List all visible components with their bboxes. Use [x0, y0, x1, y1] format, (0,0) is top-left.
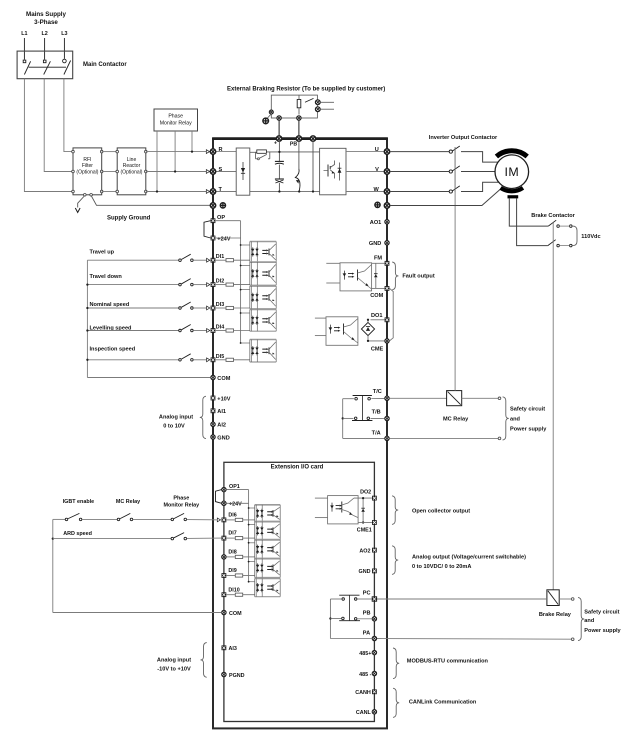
- terminal AO2: [372, 548, 377, 553]
- terminal DO2: [372, 496, 377, 501]
- terminal 485-: [372, 671, 376, 675]
- terminal +: [276, 136, 281, 141]
- terminal CANH: [372, 689, 377, 694]
- wires RFI to line reactor: [102, 151, 118, 153]
- DO2 optocoupler: [315, 497, 328, 499]
- main contactor linkage bar: [29, 66, 66, 68]
- wire PC to brake relay: [377, 598, 547, 600]
- wires line reactor to drive R S T: [146, 151, 206, 153]
- input resistor DI9: [235, 574, 242, 577]
- braking resistor R: [297, 100, 301, 108]
- main contactor pole L3: [63, 59, 67, 63]
- terminal AO1: [385, 220, 389, 224]
- svg-text:+24V: +24V: [217, 236, 230, 242]
- svg-text:PA: PA: [363, 631, 370, 637]
- terminal T/B: [385, 416, 389, 420]
- svg-text:AO2: AO2: [359, 548, 370, 554]
- brace open collector: [392, 496, 398, 525]
- wire rectifier output to chopper rail: [250, 151, 257, 153]
- terminal DI7: [222, 536, 227, 541]
- brace safety circuit MC: [503, 397, 509, 440]
- wire L3 drop: [63, 38, 65, 59]
- svg-text:OP: OP: [217, 215, 225, 221]
- svg-text:PGND: PGND: [229, 673, 245, 679]
- brake contactor linkage: [552, 223, 554, 590]
- terminal AI1: [211, 408, 216, 413]
- supply ground wire: [78, 196, 85, 208]
- svg-text:Inspection speed: Inspection speed: [90, 347, 136, 353]
- svg-text:Brake Contactor: Brake Contactor: [531, 213, 575, 219]
- svg-text:OP1: OP1: [229, 484, 240, 490]
- svg-text:DI7: DI7: [228, 531, 236, 537]
- terminal DI4: [207, 329, 210, 333]
- thermal switch on braking resistor: [305, 98, 314, 102]
- terminal T/A: [385, 436, 389, 440]
- svg-text:Analog output (Voltage/current: Analog output (Voltage/current switchabl…: [412, 555, 526, 561]
- wire T/C to MC relay coil: [390, 397, 447, 399]
- wire contactor to motor V: [461, 171, 495, 173]
- wire contactor to motor U: [461, 152, 498, 163]
- svg-text:CANLink Communication: CANLink Communication: [409, 700, 477, 706]
- wire L1 drop: [23, 38, 25, 60]
- IGBT symbol: [327, 165, 329, 177]
- svg-text:Travel up: Travel up: [90, 250, 115, 256]
- terminal CANL: [372, 710, 376, 714]
- svg-text:110Vdc: 110Vdc: [581, 234, 600, 240]
- terminal DI10: [222, 592, 227, 597]
- wire phase monitor drop 1 to T: [156, 131, 158, 192]
- svg-text:External Braking Resistor (To: External Braking Resistor (To be supplie…: [227, 87, 385, 93]
- terminal DI9: [222, 573, 227, 578]
- braking resistor assembly box: [271, 95, 317, 118]
- terminal T: [206, 190, 209, 194]
- terminal +24V left: [211, 236, 216, 241]
- wire V to contactor: [390, 171, 449, 173]
- svg-text:Analog input: Analog input: [159, 415, 193, 421]
- input resistor DI2: [226, 283, 234, 286]
- svg-text:T/A: T/A: [372, 431, 381, 437]
- phase monitor relay box: [154, 109, 198, 131]
- terminal S: [206, 170, 209, 174]
- svg-text:Power supply: Power supply: [510, 426, 547, 432]
- main contactor pole L2: [43, 60, 46, 63]
- svg-text:3-Phase: 3-Phase: [34, 19, 58, 26]
- svg-text:V: V: [375, 167, 379, 173]
- wire L2 to RFI (middle row): [44, 79, 73, 172]
- terminal PGND: [222, 672, 226, 676]
- brace safety circuit brake: [578, 597, 584, 640]
- svg-text:+: +: [274, 141, 277, 147]
- svg-text:Extension I/O card: Extension I/O card: [271, 464, 324, 470]
- svg-text:Open collector output: Open collector output: [412, 508, 470, 514]
- jumper OP1 to +24V ext: [216, 490, 222, 504]
- terminal R: [206, 150, 209, 154]
- wire V row in box: [346, 171, 385, 173]
- terminal PB ext: [372, 617, 376, 621]
- brake shoe bottom: [501, 188, 523, 191]
- IGBT freewheel diode: [339, 163, 341, 181]
- svg-text:T/C: T/C: [373, 389, 382, 395]
- svg-text:Monitor Relay: Monitor Relay: [163, 503, 199, 509]
- terminal COM left: [211, 375, 215, 379]
- minus rail drop: [312, 141, 314, 191]
- svg-text:Phase: Phase: [168, 114, 183, 120]
- wire + column: [278, 120, 280, 136]
- svg-text:Reactor: Reactor: [123, 163, 141, 169]
- terminal GND ext: [372, 569, 377, 574]
- wire relay common: [343, 398, 354, 400]
- brake contactor pole 1: [548, 220, 556, 226]
- DO1 protection diode bridge: [361, 322, 374, 335]
- left common bus for DI switches: [86, 260, 88, 377]
- terminal PB top: [297, 116, 301, 120]
- brace analog output: [392, 546, 398, 575]
- terminal DI3: [207, 306, 210, 310]
- svg-text:COM: COM: [229, 611, 242, 617]
- svg-text:485+: 485+: [359, 651, 371, 657]
- input resistor DI10: [235, 593, 242, 596]
- terminal T/C: [385, 396, 389, 400]
- svg-text:GND: GND: [359, 569, 371, 575]
- svg-text:+10V: +10V: [217, 396, 230, 402]
- DC link capacitor column: [278, 139, 280, 161]
- contactor linkage line: [454, 147, 456, 192]
- input resistor DI7: [235, 537, 242, 540]
- wire COM ext return: [53, 612, 222, 614]
- wire S row to rectifier: [216, 171, 237, 173]
- line reactor box: [117, 148, 146, 195]
- svg-text:Monitor Relay: Monitor Relay: [160, 121, 192, 127]
- svg-text:Safety circuit: Safety circuit: [584, 610, 619, 616]
- rectifier diode: [242, 162, 244, 180]
- ext opto feed line: [226, 489, 248, 491]
- main drive unit box: [213, 139, 387, 729]
- wire R row to rectifier: [216, 151, 237, 153]
- terminal minus: [310, 136, 315, 141]
- optocoupler DI2: [250, 261, 276, 263]
- optocoupler DI5: [250, 339, 276, 341]
- svg-text:(Optional): (Optional): [121, 170, 143, 176]
- terminal DI1: [207, 258, 210, 262]
- wire U to contactor: [390, 151, 449, 153]
- svg-text:GND: GND: [369, 241, 381, 247]
- terminal CME: [385, 339, 389, 343]
- PE symbol right: [375, 202, 380, 207]
- terminal PE left: [210, 203, 215, 208]
- wire W row in box: [346, 191, 385, 193]
- optocoupler DI4: [250, 309, 276, 311]
- terminal FM: [385, 261, 390, 266]
- svg-text:Main Contactor: Main Contactor: [83, 62, 127, 68]
- terminal +10V: [211, 396, 216, 401]
- wire PB column: [298, 120, 300, 136]
- svg-text:CANL: CANL: [356, 710, 372, 716]
- terminal OP1: [222, 487, 226, 491]
- svg-text:Inverter Output Contactor: Inverter Output Contactor: [429, 135, 498, 141]
- terminal DI8: [222, 555, 226, 559]
- svg-text:Travel down: Travel down: [90, 274, 123, 280]
- terminal DI2: [207, 283, 210, 287]
- optocoupler DI8: [255, 539, 281, 541]
- terminal DI6: [222, 518, 227, 523]
- svg-text:W: W: [374, 187, 380, 193]
- svg-text:PB: PB: [290, 141, 297, 147]
- terminal AI2: [211, 422, 215, 426]
- terminal W: [384, 189, 389, 194]
- svg-text:0 to 10V: 0 to 10V: [163, 424, 185, 430]
- svg-text:485 -: 485 -: [359, 672, 371, 678]
- wire to DI7: [187, 537, 222, 539]
- wire brake relay to safety: [559, 598, 571, 600]
- terminal GND right: [385, 241, 389, 245]
- wire L2 drop: [44, 38, 46, 60]
- svg-text:CME1: CME1: [357, 528, 372, 534]
- terminal COM fault: [385, 286, 390, 291]
- brace canlink: [393, 688, 399, 717]
- terminal OP: [211, 218, 216, 223]
- relay contact PC-PB: [339, 594, 359, 596]
- optocoupler DI6: [255, 504, 281, 506]
- svg-text:PC: PC: [363, 591, 371, 597]
- terminal + on DC bus: [277, 116, 281, 120]
- svg-text:DI9: DI9: [228, 568, 236, 574]
- inrush resistor: [257, 150, 267, 153]
- svg-text:Analog input: Analog input: [157, 658, 191, 664]
- inrush bypass contact: [255, 152, 257, 159]
- inverter IGBT box: [320, 148, 346, 195]
- optocoupler DI7: [255, 520, 281, 522]
- svg-text:FM: FM: [374, 256, 382, 262]
- svg-text:AI1: AI1: [217, 409, 226, 415]
- terminal +24V ext: [222, 501, 226, 505]
- PE symbol left: [220, 203, 225, 208]
- main contactor KM box: [17, 51, 73, 79]
- terminal AI3: [222, 645, 227, 650]
- brace analog input 0-10V: [200, 396, 206, 438]
- svg-text:0 to 10VDC/ 0 to 20mA: 0 to 10VDC/ 0 to 20mA: [412, 564, 471, 570]
- svg-text:R: R: [219, 147, 223, 153]
- input resistor DI8: [235, 555, 242, 558]
- svg-text:L3: L3: [61, 31, 67, 37]
- wire DO1 to diode bridge: [367, 320, 369, 323]
- svg-text:DI10: DI10: [228, 587, 239, 593]
- input resistor DI5: [226, 358, 234, 361]
- svg-text:-10V to +10V: -10V to +10V: [157, 667, 191, 673]
- wire PE to motor frame: [390, 188, 502, 206]
- fault output optocoupler: [326, 262, 340, 264]
- svg-text:DO2: DO2: [360, 489, 371, 495]
- terminal DO1: [385, 317, 390, 322]
- svg-text:Power supply: Power supply: [584, 628, 621, 634]
- brake chopper switch: [298, 141, 300, 169]
- DO1 optocoupler: [315, 317, 326, 319]
- svg-text:Safety circuit: Safety circuit: [510, 406, 545, 412]
- svg-text:AI2: AI2: [217, 423, 226, 429]
- svg-text:L2: L2: [41, 31, 47, 37]
- relay contact T/C-T/B: [353, 395, 372, 397]
- fault flyback diode: [375, 263, 377, 288]
- jumper COM to CME external: [390, 288, 394, 341]
- svg-text:IM: IM: [505, 165, 520, 179]
- wire bridge to CME: [367, 336, 369, 341]
- svg-text:(Optional): (Optional): [76, 170, 98, 176]
- MC relay coil: [447, 391, 462, 406]
- svg-text:MC Relay: MC Relay: [443, 417, 469, 423]
- svg-text:AO1: AO1: [370, 220, 382, 226]
- wire T row through power stage: [216, 191, 320, 193]
- terminal V: [384, 169, 389, 174]
- svg-text:+24V: +24V: [229, 502, 242, 508]
- svg-text:DI5: DI5: [216, 354, 224, 360]
- wire PA to safety: [377, 638, 571, 641]
- terminal COM ext: [222, 610, 226, 614]
- svg-text:ARD speed: ARD speed: [63, 531, 92, 537]
- svg-text:Filter: Filter: [82, 163, 93, 169]
- svg-text:MODBUS-RTU communication: MODBUS-RTU communication: [407, 659, 489, 665]
- wire L3 to RFI (top row): [64, 79, 73, 152]
- svg-text:Mains Supply: Mains Supply: [26, 11, 66, 18]
- wire inrush to IGBT: [266, 151, 319, 153]
- terminal CME1: [372, 520, 377, 525]
- input resistor DI6: [235, 518, 242, 521]
- optocoupler DI10: [255, 578, 281, 580]
- input resistor DI4: [226, 329, 234, 332]
- svg-text:DI2: DI2: [216, 279, 224, 285]
- svg-text:COM: COM: [370, 293, 383, 299]
- terminal 485+: [372, 650, 376, 654]
- motor IM: [495, 155, 529, 189]
- svg-text:DI8: DI8: [228, 550, 236, 556]
- extension I/O card box: [224, 462, 375, 721]
- optocoupler DI3: [250, 285, 276, 287]
- svg-text:DI1: DI1: [216, 254, 224, 260]
- wire L1 to RFI (bottom row): [24, 79, 73, 192]
- ground symbol: [75, 208, 80, 212]
- wire phase monitor drop 2 to S: [174, 131, 176, 172]
- terminal GND analog: [211, 435, 215, 439]
- svg-text:Brake Relay: Brake Relay: [539, 612, 572, 618]
- brake shoe top: [496, 151, 527, 157]
- contactor linkage to MC relay: [454, 147, 456, 391]
- rectifier box: [236, 148, 250, 195]
- wire MC relay to safety circuit: [462, 397, 499, 399]
- svg-text:T: T: [219, 187, 223, 193]
- svg-text:GND: GND: [217, 435, 229, 441]
- inverter output contactor poles: [449, 150, 452, 153]
- wire phase monitor drop 3 to R: [191, 131, 193, 152]
- svg-text:S: S: [219, 167, 223, 173]
- svg-text:COM: COM: [217, 376, 230, 382]
- braking resistor shield terminal: [269, 110, 273, 114]
- optocoupler DI9: [255, 557, 281, 559]
- RFI filter box: [73, 148, 102, 195]
- terminal U: [384, 149, 389, 154]
- DC bus (top edge): [212, 137, 388, 140]
- svg-text:and: and: [584, 618, 595, 624]
- svg-text:CME: CME: [371, 347, 384, 353]
- wire to DI6: [187, 519, 214, 521]
- terminal DI5: [207, 358, 210, 362]
- input resistor DI3: [226, 306, 234, 309]
- svg-text:DI4: DI4: [216, 325, 224, 331]
- svg-text:DO1: DO1: [371, 313, 383, 319]
- jumper OP to +24V: [204, 221, 211, 238]
- 110Vdc bracket: [573, 226, 577, 245]
- svg-text:Supply Ground: Supply Ground: [107, 216, 151, 222]
- braking resistor PE symbol: [268, 114, 272, 118]
- opto feed line from OP/+24V: [216, 220, 241, 222]
- svg-text:AI3: AI3: [229, 646, 237, 652]
- wire RFI ground to drive PE terminal: [91, 196, 210, 206]
- wire COM return: [87, 377, 210, 379]
- brace modbus: [393, 648, 399, 679]
- svg-text:Phase: Phase: [173, 496, 189, 502]
- wire U row in box: [346, 151, 385, 153]
- svg-text:IGBT enable: IGBT enable: [63, 499, 94, 505]
- optocoupler DI1: [250, 241, 276, 243]
- wire contactor to motor W: [461, 182, 499, 191]
- wire T/A to safety circuit: [390, 437, 499, 439]
- brake coil leads: [509, 198, 548, 226]
- brake contactor pole 2: [548, 240, 556, 246]
- svg-text:U: U: [375, 147, 379, 153]
- svg-text:Nominal speed: Nominal speed: [90, 302, 130, 308]
- svg-text:and: and: [510, 417, 521, 423]
- ext left bus: [52, 519, 54, 612]
- svg-text:PB: PB: [363, 611, 371, 617]
- wire contact common to PA: [330, 598, 342, 600]
- DO2 flyback diode: [362, 498, 364, 522]
- terminal PA: [372, 636, 376, 640]
- input resistor DI1: [226, 259, 234, 262]
- wire W to contactor: [390, 191, 449, 193]
- terminal PC: [372, 596, 377, 601]
- svg-text:MC Relay: MC Relay: [116, 499, 140, 505]
- main contactor pole L1: [23, 60, 26, 63]
- svg-text:DI3: DI3: [216, 302, 224, 308]
- svg-text:Fault output: Fault output: [402, 274, 434, 280]
- brace analog input ext: [201, 643, 207, 678]
- terminal PE right: [384, 203, 389, 208]
- terminal PB: [296, 136, 301, 141]
- thermal switch leads: [320, 101, 334, 103]
- brake relay coil: [547, 590, 559, 606]
- svg-text:CANH: CANH: [355, 690, 371, 696]
- svg-text:DI6: DI6: [228, 513, 236, 519]
- svg-text:L1: L1: [21, 31, 27, 37]
- svg-text:T/B: T/B: [372, 410, 381, 416]
- brace fault output: [392, 262, 398, 290]
